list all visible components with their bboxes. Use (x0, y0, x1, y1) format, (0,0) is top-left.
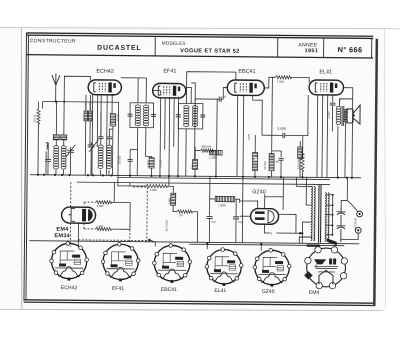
wire (302, 136, 304, 151)
svg-text:EBC41: EBC41 (238, 69, 255, 75)
socket EL41 (205, 248, 243, 287)
wire socket stub GZ40 (260, 243, 262, 251)
output transformer secondary (344, 109, 348, 122)
grid resistor 2MΩ (96, 201, 112, 204)
svg-text:5.000: 5.000 (327, 111, 331, 118)
wire (208, 219, 210, 243)
IFT2 box (178, 103, 203, 129)
svg-text:EL41: EL41 (214, 288, 226, 294)
wire EF41 screen right (186, 87, 192, 103)
series capacitor (45, 159, 51, 161)
svg-text:Oscill.: Oscill. (116, 113, 120, 121)
wire HT to caps (341, 200, 347, 206)
IFT1 trimmer right (151, 114, 156, 116)
wire to EL41 (291, 77, 309, 83)
screen resistor 30kΩ (88, 111, 92, 121)
wire (194, 147, 196, 176)
svg-text:N° 666: N° 666 (338, 45, 363, 54)
IFT2 primary winding (184, 106, 189, 127)
svg-text:CONSTRUCTEUR: CONSTRUCTEUR (30, 38, 76, 44)
wire IFT1 to ECH42 (121, 78, 139, 103)
svg-text:2 MΩ: 2 MΩ (97, 204, 104, 208)
svg-text:50: 50 (180, 213, 184, 217)
wire drop (241, 184, 244, 243)
svg-text:EF41: EF41 (112, 286, 124, 292)
svg-text:4 MΩ: 4 MΩ (150, 188, 157, 192)
tube GZ40 envelope (250, 208, 278, 224)
tube EF41 envelope (153, 83, 186, 98)
IFT1 trimmer left (128, 114, 133, 116)
socket EF41 (101, 242, 140, 281)
wire antenna coil to grid (64, 76, 90, 102)
wire EM4 drop (77, 223, 79, 245)
svg-text:50-5.000: 50-5.000 (165, 220, 169, 232)
mains terminal upper (357, 211, 363, 217)
svg-text:5.100: 5.100 (159, 160, 163, 167)
svg-text:300.000: 300.000 (201, 145, 212, 149)
svg-text:1951: 1951 (305, 48, 319, 54)
wire (254, 171, 256, 177)
header table top line (double) (26, 33, 373, 39)
wire drop2 (168, 182, 170, 184)
wire EBC41 grid left (223, 87, 227, 89)
scan paper bottom edge (0, 310, 385, 311)
header table divider after constructeur cell (154, 36, 156, 56)
wire EF41 grid (153, 91, 161, 96)
wire antenna down (55, 85, 57, 101)
svg-text:EF41: EF41 (163, 68, 176, 74)
wire antenna horizontal bus y=103 (43, 100, 119, 103)
junction blob (307, 244, 320, 247)
chassis bus (30, 175, 361, 178)
socket ECH42 (50, 242, 89, 281)
wire ECH42 drops (92, 94, 112, 175)
wire EL41 drops (317, 95, 333, 178)
wire taps right (326, 195, 333, 235)
wire (166, 183, 198, 242)
wire (111, 182, 130, 229)
wire (130, 149, 138, 175)
dashed enclosure vertical (146, 187, 149, 241)
svg-text:2 MΩ: 2 MΩ (167, 198, 171, 205)
wire (55, 170, 57, 175)
tuning coil L2 (61, 146, 66, 169)
osc padder coil (110, 114, 116, 126)
switch arm (347, 178, 358, 212)
wire (270, 77, 273, 176)
wire B+ down (351, 99, 354, 177)
svg-text:1 MΩ: 1 MΩ (96, 224, 103, 228)
AVC resistor (149, 158, 154, 169)
wire GZ40 plate top (240, 199, 258, 216)
decoupling cap (128, 159, 133, 161)
svg-text:EM4: EM4 (56, 227, 69, 233)
filter capacitor 2 (233, 217, 239, 219)
socket EBC41 (152, 244, 192, 284)
wire (62, 170, 64, 175)
wire dashed enclosure top (133, 186, 147, 188)
output transformer core (342, 106, 344, 126)
transformer core (319, 185, 322, 243)
coupling capacitor 5000 (283, 133, 285, 138)
wire taps left (296, 177, 313, 243)
screen resistor 0.5MΩ (84, 111, 88, 121)
scan paper left edge (20, 28, 23, 309)
wire (85, 95, 90, 175)
wire EBC41 drops (237, 95, 262, 183)
electrolytic cap B (336, 226, 345, 242)
tube GZ40 anode plates (255, 211, 265, 220)
wire (210, 176, 240, 215)
svg-text:GZ40: GZ40 (262, 289, 275, 295)
tube EM4 envelope (61, 207, 95, 223)
fuse wedge (327, 238, 337, 245)
scan paper right faint edge (385, 29, 386, 309)
svg-text:1.500: 1.500 (146, 160, 150, 167)
bus 3 segment (77, 182, 330, 184)
svg-text:0.1: 0.1 (190, 165, 194, 169)
electrolytic cap A (336, 206, 345, 225)
wire (235, 199, 237, 242)
scan paper top edge (0, 28, 400, 29)
wire EM4 dashed to grid resistor (84, 202, 96, 206)
header table divider after modeles cell (277, 37, 279, 57)
wire IFT1 drops (137, 128, 146, 176)
wire (129, 183, 131, 187)
speaker cone (353, 105, 360, 124)
wire EM4 top (70, 182, 72, 207)
transformer primary winding (311, 187, 313, 241)
svg-text:MODELES: MODELES (162, 41, 186, 46)
wire (280, 160, 282, 176)
tube EL41 electrodes (315, 82, 337, 92)
wire (299, 141, 301, 177)
svg-text:EM4: EM4 (309, 290, 320, 296)
wire (56, 102, 64, 146)
IFT1 secondary winding (143, 105, 148, 126)
arrow (299, 232, 303, 234)
border frame right (thick) (374, 39, 377, 306)
wire (101, 111, 113, 145)
wire (301, 171, 303, 177)
svg-text:f: f (271, 232, 272, 236)
svg-text:VOGUE ET STAR 52: VOGUE ET STAR 52 (180, 48, 240, 55)
svg-text:ECH42: ECH42 (96, 69, 113, 75)
tube ECH42 electrodes (94, 82, 116, 92)
grid cap 50pf (279, 158, 284, 160)
wire (254, 135, 256, 152)
speaker dot (353, 114, 355, 116)
junction dots (37, 174, 353, 179)
filter capacitor 1 (207, 217, 213, 219)
grid leak jog (272, 151, 282, 157)
wire EM4 drop2 (69, 223, 71, 247)
speaker magnet (346, 109, 353, 123)
tube EF41 electrodes (158, 86, 180, 96)
variable capacitor CV1 (66, 145, 75, 157)
svg-text:20.000: 20.000 (263, 161, 267, 170)
AF resistor 50k (177, 210, 192, 213)
wire (178, 150, 216, 176)
IFT2 secondary winding (192, 106, 197, 127)
wire dashed drop (129, 229, 131, 241)
output transformer primary (336, 106, 341, 124)
svg-text:DUCASTEL: DUCASTEL (97, 45, 141, 52)
wire mains lower (341, 233, 358, 239)
wire (145, 156, 151, 175)
filter choke (215, 196, 235, 202)
screen feed resistor 300kΩ (201, 149, 214, 152)
diode load resistor (252, 153, 257, 171)
wire EF41 drops (160, 97, 179, 183)
padding capacitor block L1 (53, 135, 59, 140)
wire vertical (282, 177, 284, 210)
bottom bus (29, 241, 359, 244)
IFT2 trimmer right (200, 115, 205, 117)
osc coil L4 (107, 145, 112, 168)
IFT1 box (130, 103, 154, 128)
svg-text:EM34: EM34 (54, 233, 70, 239)
wire socket stub EL41 (206, 242, 208, 249)
svg-text:EL41: EL41 (319, 69, 332, 75)
tube GZ40 filament (268, 210, 274, 223)
transformer secondary winding (325, 193, 327, 242)
header table divider after annee cell (323, 38, 325, 58)
tube ECH42 envelope (88, 80, 121, 95)
svg-text:GZ40: GZ40 (252, 189, 266, 195)
wire EBC41 plate right (264, 77, 275, 88)
wire (111, 228, 130, 230)
wire IFT1 right top (138, 78, 146, 103)
IFT1 primary winding (135, 105, 140, 126)
wire (37, 140, 39, 174)
border frame left (double line) (24, 33, 29, 301)
bus 2 segment (118, 178, 330, 180)
wire (69, 157, 71, 175)
wire GZ40 top to HT (265, 194, 284, 209)
wire socket stub (149, 240, 155, 247)
input coupling coil (46, 144, 47, 150)
osc coil L3 (98, 145, 103, 168)
antenna (52, 73, 60, 85)
wire EM4 dashed lower (84, 224, 96, 229)
wire (45, 152, 47, 175)
osc trimmer cap A (98, 137, 103, 139)
socket GZ40 (253, 248, 291, 287)
variable capacitor CV2 (87, 140, 98, 175)
cathode bypass capacitor (330, 103, 336, 105)
antenna series resistor (37, 108, 40, 123)
tube EL41 envelope (309, 80, 344, 95)
wire (100, 129, 112, 175)
svg-text:EBC41: EBC41 (161, 287, 177, 293)
wire dashed bottom (78, 239, 146, 242)
grid capacitor (219, 97, 221, 102)
target resistor 1MΩ (95, 227, 111, 230)
tube EBC41 envelope (227, 80, 264, 96)
wire transformer drops (337, 99, 345, 178)
wire (331, 105, 333, 131)
wire (46, 143, 48, 175)
wire EL41 plate top (340, 88, 353, 106)
osc trimmer cap B (107, 137, 112, 139)
heater line f (276, 232, 303, 234)
cathode resistor (193, 159, 198, 169)
svg-text:8 μF: 8 μF (211, 220, 217, 224)
plate resistor 150k (301, 151, 304, 171)
svg-text:1.500: 1.500 (209, 156, 216, 160)
header table bottom line (26, 55, 373, 58)
wire coupling (262, 95, 308, 136)
resistor to AF (171, 193, 176, 205)
screen dropper 4MΩ (146, 184, 167, 187)
svg-text:10 kΩ: 10 kΩ (32, 115, 36, 122)
plate resistor 20k (269, 154, 274, 171)
svg-text:1 MΩ: 1 MΩ (277, 80, 285, 84)
wire IFT2 drops (186, 99, 195, 176)
tube EM4 electrodes (69, 208, 93, 221)
tuning coil L1 (54, 146, 59, 169)
junction dots antenna line (55, 101, 66, 103)
svg-text:50: 50 (276, 160, 280, 164)
socket EM4 (304, 246, 348, 289)
wire left drop (38, 101, 42, 140)
padding capacitor block L2 (61, 135, 67, 140)
border frame bottom (double line) (24, 300, 374, 306)
svg-text:5.000: 5.000 (277, 127, 286, 131)
bottom bus 2 (189, 244, 344, 245)
tube EBC41 electrodes (235, 83, 257, 93)
wire (195, 87, 227, 103)
svg-text:1.500: 1.500 (247, 133, 251, 140)
wire (216, 103, 217, 176)
svg-text:ECH42: ECH42 (61, 285, 78, 291)
mains terminal lower (355, 227, 361, 233)
wire IFT2 top (186, 72, 236, 104)
cathode resistor EL41 (298, 147, 303, 159)
IFT2 trimmer left (176, 115, 181, 117)
header table right edge (371, 38, 373, 57)
wire GZ40 right (278, 214, 296, 233)
svg-text:1.800: 1.800 (218, 203, 226, 207)
wire GZ40 cathode down (264, 224, 270, 233)
tap dots (331, 194, 333, 236)
wire AVC rail (118, 102, 147, 186)
volume potentiometer (210, 150, 223, 155)
plate load resistor 1MΩ (275, 76, 291, 79)
